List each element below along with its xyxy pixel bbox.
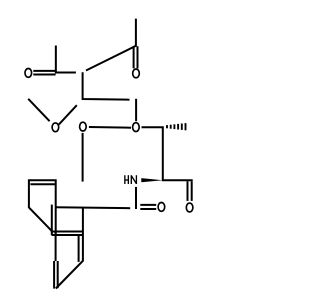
atom label O of amide — [158, 203, 165, 212]
atom label HN — [125, 175, 137, 184]
bond C=O right line of right acetyl — [137, 46, 139, 68]
bond O4 down vertical — [82, 133, 84, 182]
ring B/C shared vertical — [55, 232, 57, 262]
bond aldehyde C=O left line — [187, 181, 189, 201]
hashed wedge methyl on C6 — [167, 123, 186, 130]
bond C=O upper line of left acetyl — [33, 70, 55, 72]
bond amide C=O upper line — [140, 204, 156, 206]
bond O3 to C2 diagonal — [59, 105, 77, 124]
ring B top lower line — [52, 234, 84, 236]
solid wedge N-C7 — [141, 178, 163, 182]
bond C3 to O5 vertical — [135, 99, 137, 121]
ring B right inner double line — [78, 235, 80, 262]
atom label O5 — [133, 123, 140, 132]
bond C1-C2 vertical then C2-C3 horizontal — [83, 72, 130, 99]
ring B right vertical then bottom diagonal (path) — [56, 208, 83, 289]
bond C=O left line of right acetyl — [133, 47, 135, 69]
atom label O of right acetyl — [133, 69, 140, 78]
ring A top inner double line — [30, 183, 55, 185]
atom label O of methoxy — [52, 123, 59, 132]
atom label O of aldehyde — [186, 203, 193, 212]
atom label O of left acetyl — [25, 69, 32, 78]
bond amide C=O lower line — [140, 208, 156, 210]
bond N to amide C vertical — [135, 187, 137, 209]
bond methoxy CH3 diagonal — [28, 99, 49, 121]
ring B top upper line — [51, 231, 83, 233]
bond O4-O5 horizontal — [89, 126, 131, 129]
ring A outline: diagonal, left side, top, right side (path) — [29, 180, 56, 235]
ring C left outer double line — [53, 261, 55, 289]
bond aldehyde C=O right line — [191, 181, 193, 201]
ring A right inner double line — [51, 205, 53, 235]
atom label O4 — [80, 122, 87, 131]
ring C left inner double line — [57, 261, 59, 288]
bond O5-C6, C6-C7, C7-aldehyde C (path) — [142, 127, 193, 180]
bond CH3 and C-C of left acetyl (path through carbonyl carbon) — [56, 46, 76, 73]
bond CH3 of right acetyl then diagonal to C1 — [86, 19, 136, 71]
bond amide C to fluorenyl horizontal — [56, 207, 131, 208]
bond C=O lower line of left acetyl — [33, 74, 55, 76]
